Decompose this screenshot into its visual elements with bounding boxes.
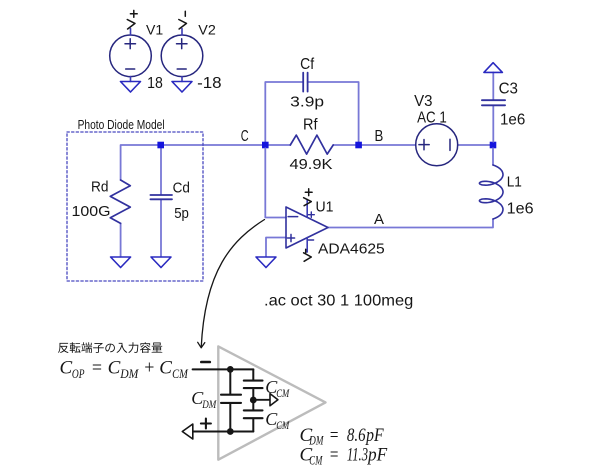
wire inverting input: [265, 148, 286, 217]
svg-text:.ac oct 30 1 100meg: .ac oct 30 1 100meg: [264, 292, 413, 309]
wire V2 stubs: [181, 29, 183, 82]
inset capacitor C_DM: [229, 369, 231, 431]
svg-text:C: C: [108, 358, 121, 379]
wire V1 stubs: [130, 29, 132, 82]
svg-text:CM: CM: [276, 386, 290, 400]
inductor L1: [479, 165, 503, 219]
svg-text:CM: CM: [172, 366, 189, 381]
svg-text:C: C: [241, 128, 249, 145]
svg-text:=: =: [329, 445, 339, 466]
capacitor Cf: [303, 73, 307, 92]
equation C_DM = 8.6pF: [300, 425, 384, 448]
svg-text:C: C: [60, 358, 73, 379]
svg-text:V3: V3: [414, 93, 432, 110]
inset middle junction dot: [250, 397, 257, 404]
svg-text:ADA4625: ADA4625: [318, 241, 385, 258]
wire main node row: [121, 144, 493, 146]
ground under Cd: [151, 257, 171, 268]
svg-text:A: A: [374, 211, 384, 228]
inset top wire (- input): [193, 368, 254, 370]
inset + sign: [201, 419, 211, 429]
svg-text:3.9p: 3.9p: [290, 94, 324, 111]
svg-text:=: =: [329, 425, 339, 446]
wire non-inverting input: [266, 238, 286, 257]
svg-text:Rf: Rf: [303, 116, 318, 133]
resistor Rf: [290, 135, 333, 154]
net flag + above op-amp: [304, 189, 313, 206]
net flag - below op-amp: [304, 249, 312, 261]
op-amp input marks: [287, 217, 297, 242]
junction right of V3: [490, 142, 497, 149]
resistor Rd: [110, 180, 130, 223]
node C junction: [262, 142, 269, 149]
capacitor C3: [482, 100, 505, 105]
svg-text:Rd: Rd: [91, 179, 109, 195]
net flag above C3: [484, 63, 503, 73]
svg-text:C: C: [159, 358, 172, 379]
svg-text:5p: 5p: [174, 206, 189, 222]
inset junction dot top: [227, 366, 234, 373]
svg-text:pF: pF: [364, 425, 383, 446]
net flag - above V2: [179, 11, 187, 29]
photo diode model dashed box: [67, 132, 203, 281]
inset op-amp triangle (gray): [218, 346, 325, 459]
wire L1 stems + output row: [328, 148, 494, 227]
svg-text:100G: 100G: [72, 203, 111, 220]
svg-text:49.9K: 49.9K: [290, 156, 333, 173]
net flag + above V1: [127, 10, 137, 29]
equation C_CM = 11.3pF: [300, 445, 388, 468]
svg-text:-18: -18: [197, 75, 222, 92]
svg-text:CM: CM: [276, 418, 290, 432]
svg-text:DM: DM: [119, 366, 139, 381]
svg-text:+: +: [143, 358, 155, 379]
svg-text:1e6: 1e6: [507, 201, 534, 218]
op-amp V+ pin stem: [306, 200, 308, 218]
capacitor Cd: [150, 195, 172, 199]
svg-text:V1: V1: [146, 22, 163, 37]
inset - sign: [201, 361, 210, 364]
svg-text:B: B: [375, 128, 384, 145]
svg-text:V2: V2: [198, 22, 216, 37]
voltage source V1: [110, 35, 152, 77]
svg-text:Cd: Cd: [173, 180, 190, 196]
inset left arrowhead: [182, 424, 193, 439]
svg-text:11.3: 11.3: [347, 445, 368, 466]
wire node C column up to Cf rail: [265, 82, 358, 145]
inset right branch capacitor C_CM top: [252, 369, 254, 431]
op-amp rail pin marks: [308, 212, 315, 240]
svg-text:OP: OP: [72, 366, 85, 381]
inset junction dot bottom: [227, 428, 234, 435]
svg-text:8.6: 8.6: [347, 425, 366, 446]
op-amp U1: [286, 207, 328, 248]
wire Cd stems: [160, 145, 162, 257]
svg-text:C3: C3: [499, 81, 518, 98]
svg-text:1e6: 1e6: [500, 112, 525, 129]
svg-text:Photo Diode Model: Photo Diode Model: [78, 117, 165, 132]
svg-text:pF: pF: [366, 445, 387, 466]
japanese annotation 反転端子の入力容量: [58, 342, 162, 353]
inset bottom wire (+ input): [193, 431, 254, 433]
wire C3 column: [492, 72, 494, 141]
equation C_OP = C_DM + C_CM: [60, 358, 189, 381]
svg-text:DM: DM: [202, 397, 217, 411]
svg-text:L1: L1: [507, 174, 522, 190]
svg-text:AC 1: AC 1: [417, 109, 447, 126]
voltage source V3: [416, 124, 458, 166]
inset buffer symbol: [253, 399, 270, 401]
ground under Rd: [111, 257, 131, 268]
op-amp V- pin stem: [306, 238, 308, 253]
voltage source V2: [161, 35, 203, 77]
junction at Cd top: [157, 142, 164, 149]
ground at op-amp + input: [256, 257, 276, 268]
node B junction: [355, 142, 362, 149]
ground under V1: [121, 82, 141, 93]
wire Rd stems: [120, 145, 122, 257]
svg-text:18: 18: [147, 75, 163, 92]
ground under V2: [172, 82, 192, 93]
svg-text:U1: U1: [316, 200, 334, 216]
annotation curved arrow: [201, 220, 264, 348]
svg-text:CM: CM: [309, 453, 322, 467]
svg-text:Cf: Cf: [300, 56, 315, 73]
svg-text:=: =: [91, 358, 103, 379]
